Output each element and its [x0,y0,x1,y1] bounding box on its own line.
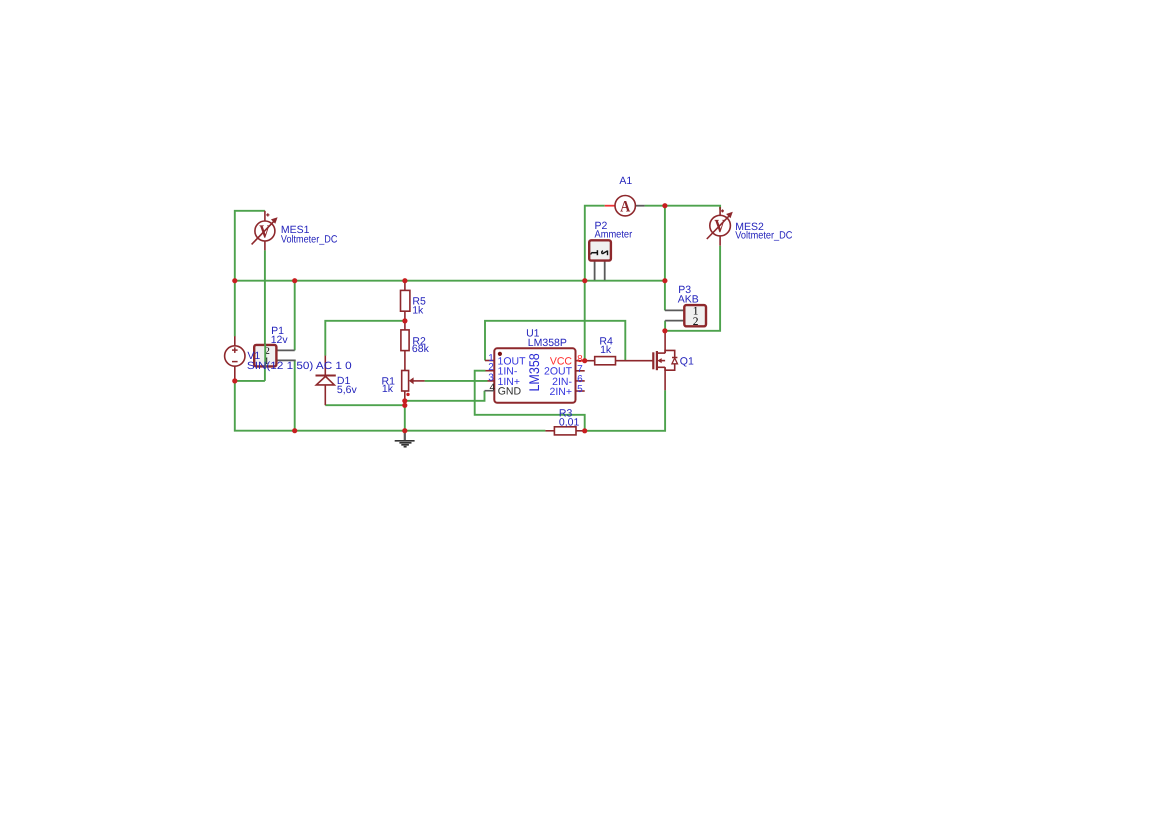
wire MES1 bottom drop [264,250,266,381]
svg-text:A: A [620,198,631,215]
voltmeter MES2 [707,207,733,246]
wire P1 pin1 stub [276,359,295,361]
connector P1 [254,344,276,367]
svg-text:AKB: AKB [678,293,699,305]
voltage source V1 [225,336,245,381]
wire bus to P3 pin1 [664,281,666,311]
svg-text:1k: 1k [600,344,612,356]
node R1 bottom b [402,403,407,408]
wire P3 pin1 stub [665,309,684,311]
resistor R5 [401,281,410,321]
svg-text:A1: A1 [619,175,632,187]
svg-text:5,6v: 5,6v [337,384,358,396]
svg-text:LM358P: LM358P [528,337,567,349]
wire through P1 box [264,344,266,367]
node R3 right [582,428,587,433]
wire bus to V1 plus [234,281,236,337]
wire U1 pin2 to R3 right [475,371,585,431]
JUNCTIONS [232,203,667,433]
wire P3 pin2 stub [665,320,684,322]
wire D1 bottom to node [325,404,405,406]
svg-text:12v: 12v [271,334,289,346]
wire R1 wiper to pin3 [425,380,488,382]
svg-text:1k: 1k [382,383,394,395]
node A1 out [662,203,667,208]
node bus-left [232,278,237,283]
wire P1 pin2 stub [276,349,294,351]
svg-text:0,01: 0,01 [559,416,580,428]
svg-text:V: V [259,222,270,242]
svg-text:2: 2 [693,316,699,328]
wire P2 pin2 lead [604,261,606,281]
wire A1 right [645,206,721,210]
ground [395,431,415,447]
wire P3 pin2 drop [664,321,666,331]
wire A1 red plus lead [605,205,615,207]
node bus-VCC [582,278,587,283]
wire main top bus [235,280,665,282]
transistor Q1 NMOS [653,331,677,391]
svg-text:4: 4 [490,382,496,393]
svg-text:Ammeter: Ammeter [595,228,633,240]
wire P2 pin1 lead [594,261,596,281]
svg-text:LM358: LM358 [526,353,542,391]
svg-text:Voltmeter_DC: Voltmeter_DC [735,229,792,241]
wire A1 node drop [664,206,666,281]
wire node to bottom bus [404,405,406,431]
node bus-P1 [292,278,297,283]
svg-text:2: 2 [488,362,494,373]
wire MES2 bottom loop [665,246,720,331]
wire P1 pin2 riser [294,281,296,351]
wire U1 1OUT loop to gate [485,321,625,361]
node bus-R5 [402,278,407,283]
potentiometer R1 [402,371,425,406]
svg-text:1k: 1k [412,305,424,317]
svg-text:GND: GND [498,386,522,398]
svg-text:V: V [714,217,725,237]
op-amp U1 LM358P [485,348,585,403]
wire P1 pin1 dropper [294,360,296,430]
svg-text:5: 5 [577,384,583,395]
voltmeter MES1 [252,211,278,251]
wire A1 left [585,206,605,281]
resistor R4 [585,357,654,365]
node R1 bottom a [402,398,407,403]
wire MES1 top hook [235,211,265,281]
wire bus to VCC pin8 [584,281,586,361]
node pin8-R4 [582,358,587,363]
wire bottom bus left [235,381,546,431]
node bottombus-P1 [292,428,297,433]
wire node to U1 GND pin [405,391,485,401]
connector P3 [684,305,706,328]
resistor R3 [545,427,584,435]
svg-text:SIN(12 1 50) AC 1 0: SIN(12 1 50) AC 1 0 [247,360,352,372]
wire Q1 source to R3 [585,390,665,431]
zener diode D1 [316,356,336,406]
node V1 minus [232,378,237,383]
wire R5 junction to D1 top [325,321,405,356]
svg-text:Voltmeter_DC: Voltmeter_DC [281,233,338,245]
svg-text:Q1: Q1 [680,356,694,368]
node R5-R2 [402,318,407,323]
node bus-right [662,278,667,283]
svg-text:2IN+: 2IN+ [550,386,572,398]
connector P2 [589,240,611,260]
resistor R2 [401,321,409,371]
node Q1 drain [662,328,667,333]
svg-text:68k: 68k [412,343,430,355]
ammeter A1 [615,196,635,216]
node ground [402,428,407,433]
wire A1 right gray stub [636,205,645,207]
wire V1 minus to MES1 [235,380,265,382]
